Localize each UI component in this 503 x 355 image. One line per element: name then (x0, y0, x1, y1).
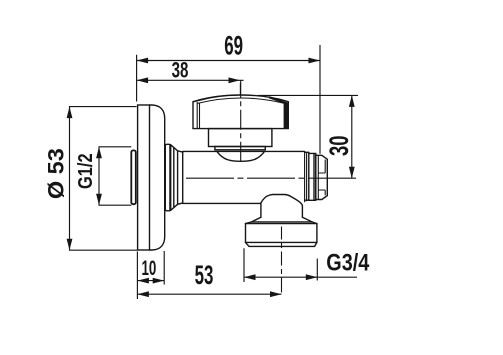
svg-text:G3/4: G3/4 (326, 250, 369, 277)
dim G3/4 extension lines (244, 248, 317, 282)
svg-text:10: 10 (142, 257, 157, 280)
stem dome arc (217, 152, 265, 162)
handle left shading lines (197, 102, 199, 128)
dim 53 line (137, 293, 281, 295)
bottom nut (G3/4) (246, 222, 317, 224)
dim 30 line (351, 95, 353, 178)
dim G3/4 line (244, 276, 317, 278)
right outlet ring 2 (309, 153, 316, 200)
dim D53 extension lines (69, 107, 137, 251)
wall pipe stub (G1/2 thread) (131, 150, 136, 204)
ribbed ring (165, 144, 170, 211)
centerline main axis (186, 177, 358, 179)
handle top-left chamfer (193, 98, 210, 102)
dim 69 line (137, 60, 320, 62)
bottom elbow dome (261, 195, 303, 218)
svg-text:G1/2: G1/2 (75, 153, 97, 189)
bonnet neck base box (215, 147, 265, 150)
bonnet neck upper box (209, 129, 272, 147)
dim 30 extension line (258, 94, 358, 96)
right outlet nut (316, 155, 328, 199)
cone taper to tube (171, 145, 183, 211)
svg-text:30: 30 (324, 135, 354, 156)
handle right dark bar (284, 103, 289, 128)
handle (193, 95, 288, 129)
centerline handle axis (240, 80, 242, 162)
dim 10 line (137, 280, 164, 282)
elbow shoulder (252, 221, 312, 223)
dim 10 extension lines (137, 251, 164, 299)
svg-text:69: 69 (224, 31, 243, 61)
svg-text:Ø 53: Ø 53 (43, 148, 68, 199)
dim 69 extension lines (137, 45, 320, 154)
svg-text:38: 38 (172, 58, 189, 83)
dim G1/2 line (98, 147, 100, 205)
svg-text:53: 53 (195, 260, 214, 290)
tube end face (double line) (305, 152, 307, 203)
right outlet ring (305, 152, 309, 200)
handle inner top arc (198, 98, 285, 103)
body tube (183, 150, 305, 152)
flange dome (150, 105, 165, 250)
flange plate (138, 105, 150, 250)
centerline bottom outlet axis (281, 227, 283, 296)
dim 38 line (137, 79, 244, 81)
dim D53 line (69, 107, 71, 251)
handle top-right dark wedge (269, 96, 289, 105)
dim G1/2 extension lines (99, 147, 132, 205)
